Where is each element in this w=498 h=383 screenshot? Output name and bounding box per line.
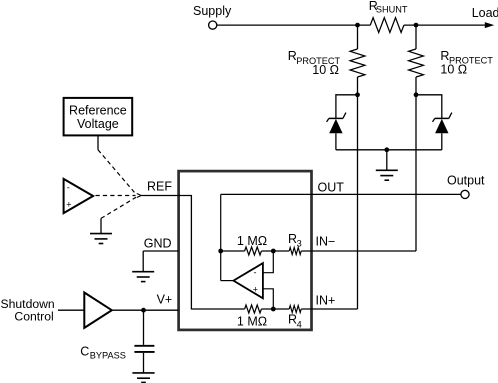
- svg-text:Control: Control: [14, 310, 53, 324]
- svg-text:1 MΩ: 1 MΩ: [237, 315, 267, 329]
- wire to ground: [386, 150, 388, 171]
- label Shutdown Control: [1, 297, 55, 324]
- wire feedback vertical: [220, 194, 222, 280]
- node feedback left: [218, 249, 223, 254]
- svg-text:Voltage: Voltage: [77, 117, 119, 131]
- svg-text:1 MΩ: 1 MΩ: [237, 234, 267, 248]
- buffer U2 (shutdown): [84, 293, 112, 328]
- resistor RPROTECT left: [288, 49, 365, 77]
- svg-text:Output: Output: [447, 173, 485, 187]
- wire zener bottom bus: [336, 149, 442, 151]
- node zener center: [384, 147, 389, 152]
- wire dashed from reference voltage: [98, 150, 136, 194]
- resistor 1M top: [237, 234, 267, 255]
- terminal Output: [447, 173, 485, 198]
- wire supply rail right: [404, 24, 487, 26]
- svg-text:IN+: IN+: [316, 293, 336, 307]
- wire op-amp output: [221, 280, 234, 282]
- resistor RSHUNT: [369, 0, 408, 32]
- svg-text:+: +: [253, 284, 258, 294]
- resistor RPROTECT right: [409, 49, 494, 77]
- op-amp U3: [234, 263, 263, 298]
- svg-text:REF: REF: [147, 180, 172, 194]
- wire noninverting input: [263, 289, 273, 309]
- arrowhead to Load: [485, 22, 494, 28]
- capacitor CBYPASS: [80, 310, 154, 373]
- svg-text:SHUNT: SHUNT: [376, 5, 408, 15]
- svg-text:IN−: IN−: [316, 234, 336, 248]
- wire GND: [143, 250, 178, 252]
- wire dashed from buffer: [96, 195, 136, 197]
- wire buffer to V+: [112, 309, 179, 311]
- svg-text:GND: GND: [144, 236, 172, 250]
- wire IN+ to left column: [301, 308, 357, 310]
- resistor R3: [288, 232, 302, 254]
- node V+ bypass junction: [141, 308, 146, 313]
- wire right column upper: [415, 25, 417, 49]
- wire: [261, 250, 289, 252]
- wire IN- row: [221, 250, 245, 252]
- wire left column upper: [357, 25, 359, 49]
- resistor 1M bottom: [237, 305, 267, 329]
- wire ref box stub: [97, 135, 99, 149]
- node right protect junction: [414, 92, 419, 97]
- svg-text:Reference: Reference: [69, 104, 127, 118]
- ground (bypass): [132, 373, 154, 383]
- wire right column lower (to IN-): [415, 77, 417, 251]
- resistor R4: [288, 306, 302, 330]
- zener diode left: [327, 95, 358, 150]
- arrowhead into REF: [137, 194, 141, 198]
- wire dashed from ground option: [101, 197, 136, 218]
- op-amp buffer U1 (REF driver): [64, 179, 94, 213]
- svg-text:10 Ω: 10 Ω: [312, 63, 339, 77]
- wire shutdown to buffer: [58, 309, 84, 311]
- wire: [261, 308, 289, 310]
- wire IN- to right column: [301, 250, 416, 252]
- ground (REF option): [90, 234, 112, 244]
- svg-text:Supply: Supply: [193, 4, 232, 18]
- node inverting junction: [271, 249, 276, 254]
- wire REF: [141, 196, 191, 310]
- node left protect junction: [355, 92, 360, 97]
- svg-text:OUT: OUT: [318, 180, 345, 194]
- reference voltage box: [64, 98, 133, 135]
- wire OUT row: [221, 193, 461, 195]
- svg-text:10 Ω: 10 Ω: [440, 63, 467, 77]
- svg-text:Load: Load: [472, 6, 498, 20]
- wire IN+ row: [191, 308, 244, 310]
- svg-text:V+: V+: [157, 292, 173, 306]
- terminal Supply: [193, 4, 232, 29]
- node right of shunt: [414, 23, 419, 28]
- wire left column lower (to IN+): [357, 77, 359, 309]
- wire ground option stub: [100, 218, 102, 233]
- wire inverting input: [263, 251, 273, 273]
- svg-text:3: 3: [297, 239, 302, 249]
- node left of shunt: [355, 23, 360, 28]
- IC box: [179, 171, 312, 330]
- svg-text:C: C: [80, 344, 89, 358]
- svg-text:BYPASS: BYPASS: [90, 350, 126, 360]
- svg-text:4: 4: [297, 319, 302, 329]
- svg-text:+: +: [66, 200, 71, 210]
- svg-text:-: -: [254, 268, 257, 278]
- ground (GND pin): [132, 272, 154, 282]
- zener diode right: [416, 95, 452, 150]
- svg-text:-: -: [67, 183, 70, 193]
- wire supply rail left: [217, 24, 370, 26]
- node noninverting junction: [271, 307, 276, 312]
- ground (zener bus): [376, 170, 398, 180]
